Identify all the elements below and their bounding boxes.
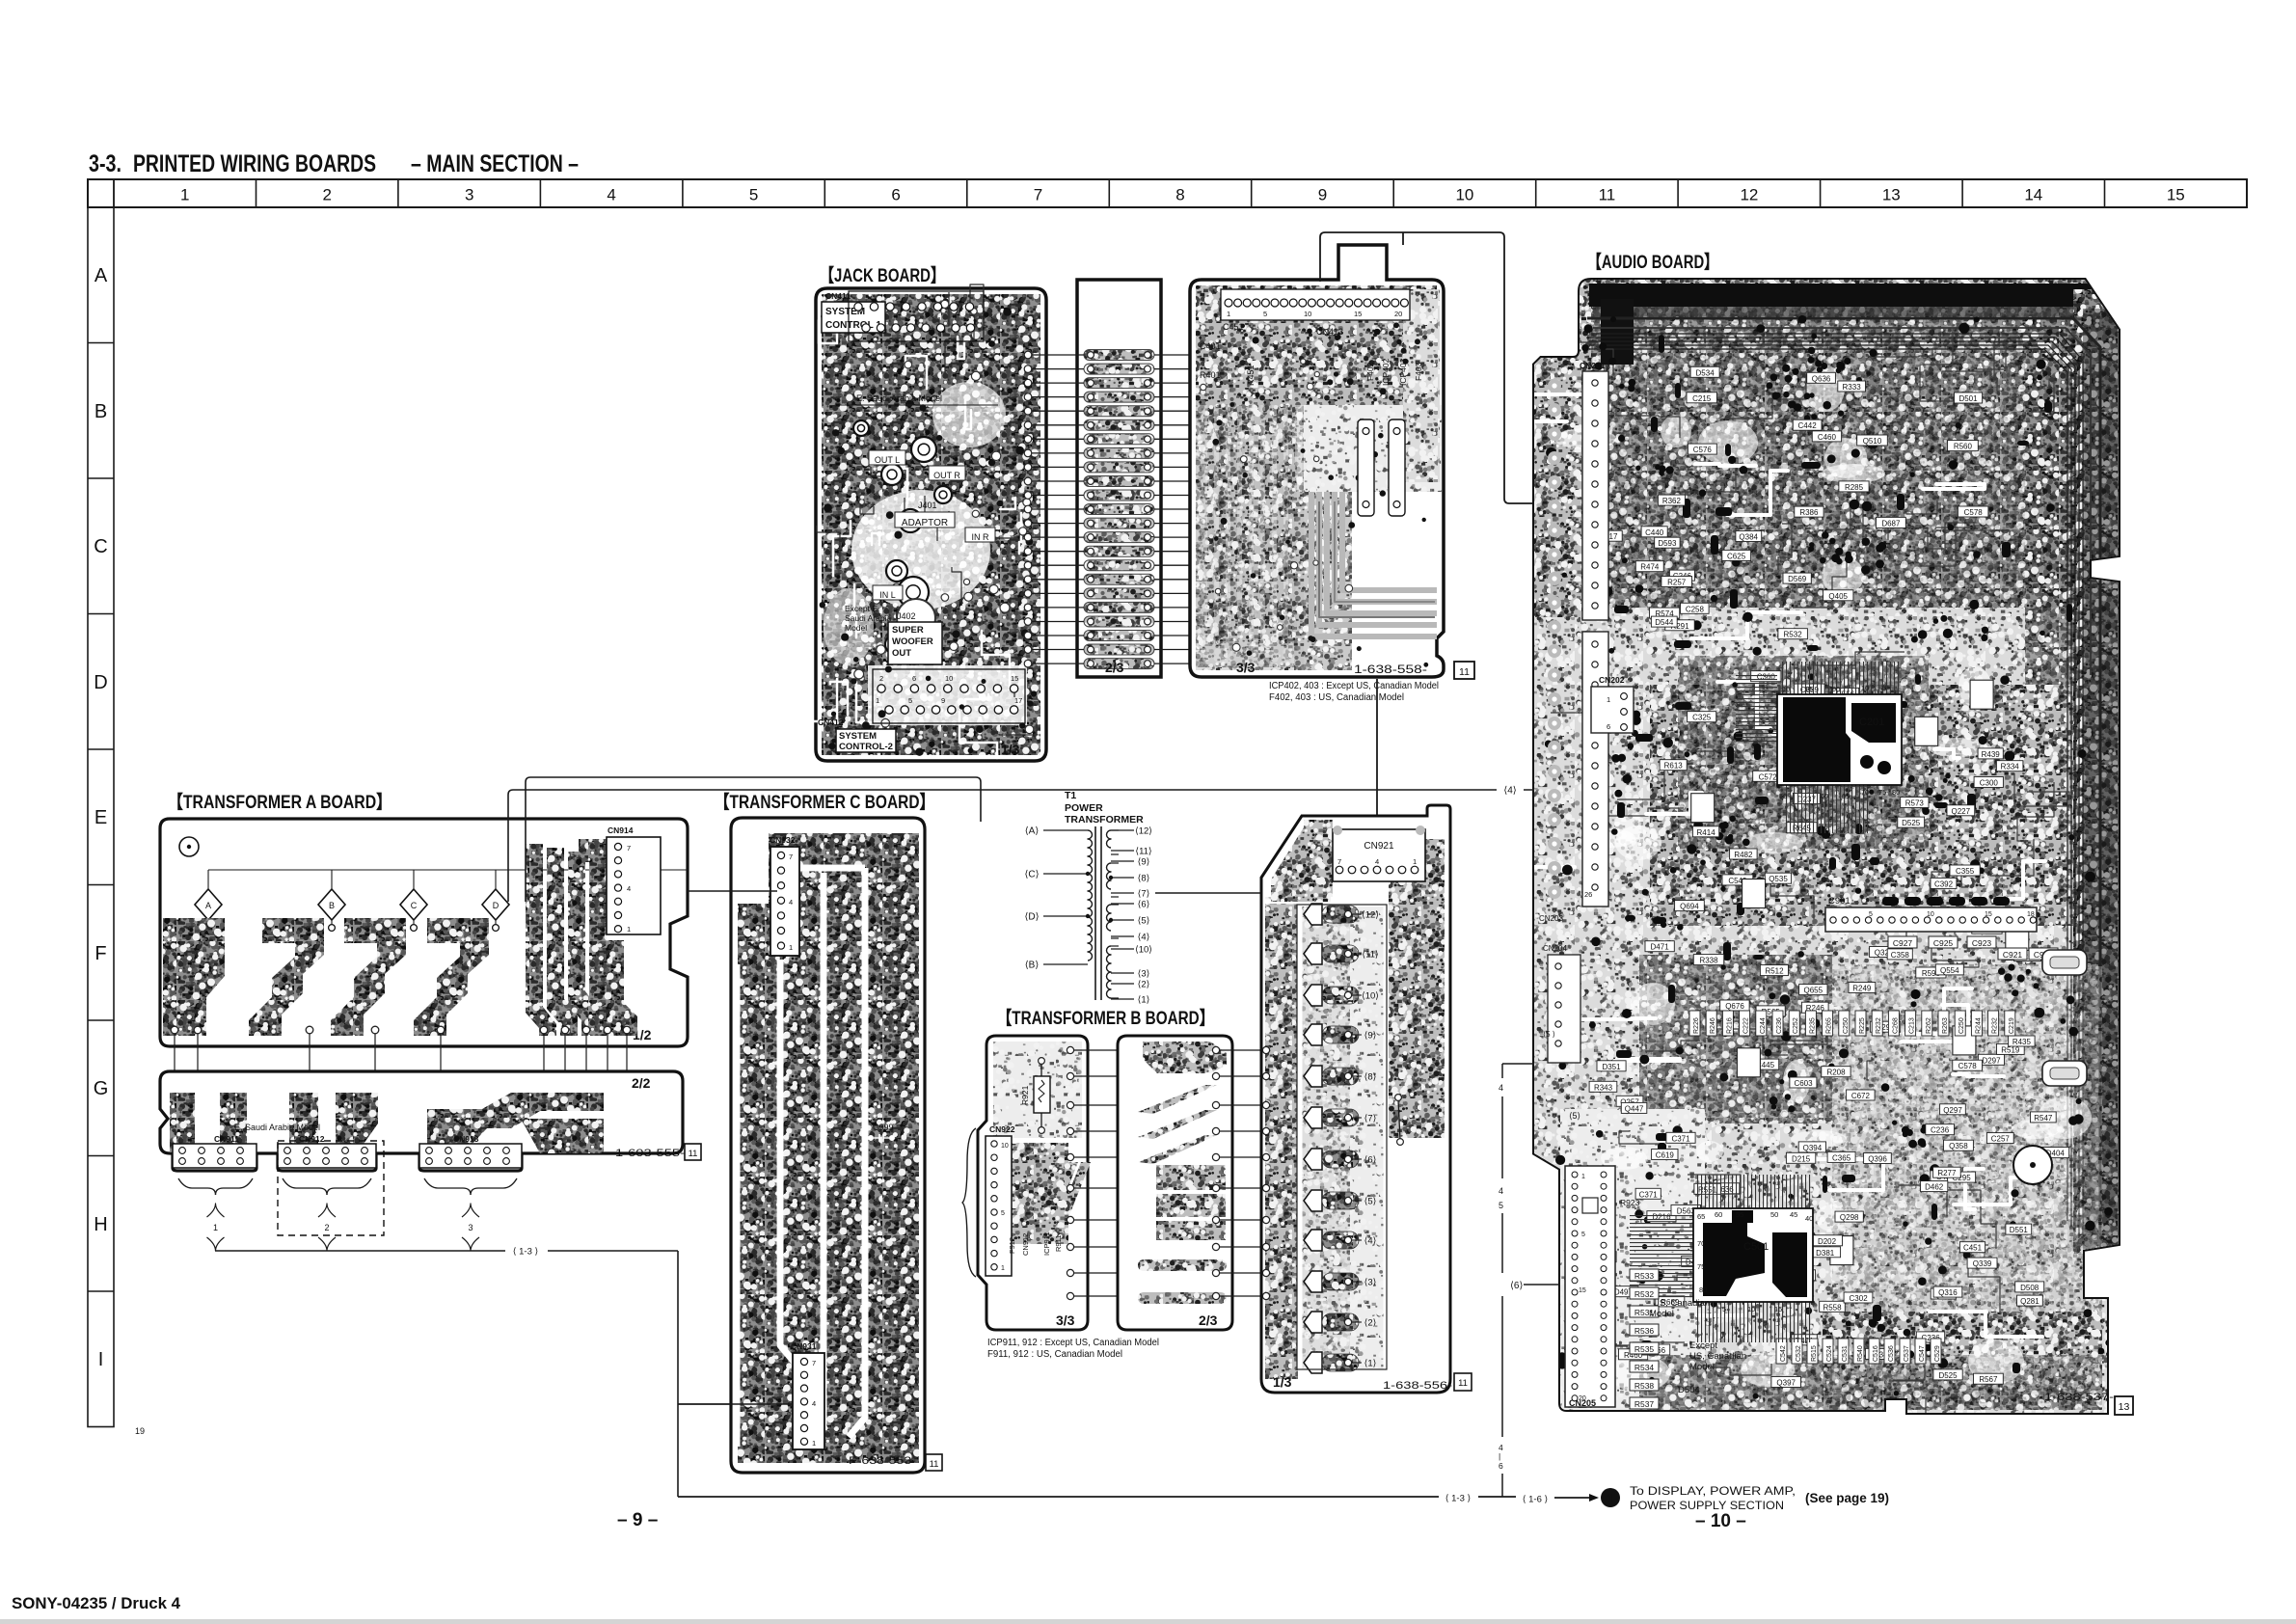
- svg-text:A: A: [205, 901, 211, 910]
- svg-text:C358: C358: [1891, 951, 1910, 960]
- svg-text:4: 4: [1499, 1186, 1503, 1196]
- svg-text:14: 14: [2024, 186, 2042, 204]
- svg-text:⟨5 ⟩: ⟨5 ⟩: [1543, 1030, 1555, 1039]
- svg-text:10: 10: [945, 674, 953, 683]
- svg-text:R535: R535: [1634, 1344, 1655, 1354]
- svg-text:3-3.: 3-3.: [89, 150, 122, 177]
- svg-text:– MAIN SECTION –: – MAIN SECTION –: [411, 150, 579, 177]
- svg-text:⟨7⟩: ⟨7⟩: [1364, 1114, 1377, 1124]
- svg-text:D525: D525: [1938, 1371, 1958, 1380]
- svg-text:CN913: CN913: [453, 1134, 479, 1144]
- svg-text:D544: D544: [1655, 618, 1674, 627]
- svg-text:R226: R226: [1693, 1017, 1700, 1034]
- svg-text:Except E.: Except E.: [845, 604, 879, 613]
- svg-text:F403: F403: [1414, 362, 1423, 381]
- svg-text:⟨9⟩: ⟨9⟩: [1138, 857, 1150, 868]
- svg-text:5: 5: [1263, 310, 1267, 318]
- svg-text:⟨ 1-3 ⟩: ⟨ 1-3 ⟩: [1445, 1493, 1472, 1503]
- svg-text:E. Saudi Arabia Model: E. Saudi Arabia Model: [856, 393, 942, 403]
- svg-text:R208: R208: [1826, 1069, 1846, 1077]
- svg-text:C524: C524: [1826, 1345, 1833, 1362]
- svg-text:⟨7⟩: ⟨7⟩: [1138, 889, 1150, 900]
- svg-text:Saudi Arabia: Saudi Arabia: [845, 613, 891, 623]
- svg-text:10: 10: [1455, 186, 1473, 204]
- svg-text:C302: C302: [1850, 1294, 1869, 1303]
- svg-text:3: 3: [468, 1223, 473, 1232]
- svg-text:⟨3⟩: ⟨3⟩: [1364, 1278, 1377, 1288]
- svg-text:6: 6: [912, 674, 916, 683]
- svg-text:D534: D534: [1696, 368, 1715, 377]
- svg-text:10: 10: [1747, 1305, 1755, 1313]
- svg-text:C201: C201: [1859, 717, 1884, 728]
- svg-text:D551: D551: [2010, 1226, 2029, 1234]
- svg-text:1/3: 1/3: [1273, 1374, 1292, 1390]
- svg-text:R235: R235: [1809, 1017, 1816, 1034]
- svg-text:6: 6: [891, 186, 900, 204]
- svg-text:B: B: [329, 901, 335, 910]
- svg-text:C213: C213: [1909, 1017, 1916, 1034]
- svg-text:2: 2: [324, 1223, 329, 1232]
- svg-text:19: 19: [135, 1426, 145, 1436]
- svg-text:Q297: Q297: [1943, 1106, 1962, 1115]
- svg-text:|: |: [1499, 1451, 1500, 1461]
- svg-text:C371: C371: [1639, 1190, 1659, 1199]
- svg-text:50: 50: [1770, 1210, 1778, 1219]
- svg-text:⟨6⟩: ⟨6⟩: [1364, 1155, 1377, 1166]
- svg-text:⟨12⟩: ⟨12⟩: [1362, 910, 1379, 921]
- svg-text:R482: R482: [1734, 851, 1753, 859]
- svg-text:1: 1: [1413, 857, 1417, 866]
- svg-text:C215: C215: [1692, 394, 1712, 403]
- svg-text:R333: R333: [1843, 383, 1862, 392]
- svg-text:Q535: Q535: [1769, 875, 1788, 883]
- svg-text:R216: R216: [1726, 1017, 1733, 1034]
- svg-text:R265: R265: [1826, 1017, 1833, 1034]
- svg-text:11: 11: [930, 1459, 939, 1470]
- svg-text:15: 15: [1985, 911, 1992, 918]
- svg-text:R262: R262: [1926, 1017, 1932, 1034]
- svg-text:US, Canadian: US, Canadian: [1689, 1351, 1746, 1362]
- svg-text:R538: R538: [1634, 1381, 1655, 1391]
- svg-text:4: 4: [1375, 857, 1379, 866]
- svg-text:⟨C⟩: ⟨C⟩: [1024, 870, 1039, 880]
- svg-text:C219: C219: [2009, 1017, 2015, 1034]
- svg-text:CN932: CN932: [770, 835, 796, 845]
- svg-text:Q554: Q554: [1940, 966, 1959, 975]
- svg-text:Q510: Q510: [1863, 437, 1882, 446]
- svg-text:D381: D381: [1816, 1249, 1835, 1258]
- svg-text:C529: C529: [1934, 1345, 1941, 1362]
- svg-text:F402: F402: [1365, 362, 1375, 381]
- svg-text:C392: C392: [1934, 880, 1954, 888]
- svg-text:R567: R567: [1979, 1375, 1998, 1384]
- svg-text:60: 60: [1715, 1210, 1722, 1219]
- svg-text:C578: C578: [1964, 508, 1984, 517]
- svg-text:C547: C547: [1919, 1345, 1926, 1362]
- svg-text:IN R: IN R: [972, 532, 990, 542]
- svg-text:6: 6: [1499, 1461, 1503, 1471]
- svg-text:2/3: 2/3: [1199, 1313, 1218, 1328]
- svg-text:17: 17: [1014, 696, 1022, 705]
- svg-text:2: 2: [879, 674, 883, 683]
- svg-text:⟨4⟩: ⟨4⟩: [1364, 1236, 1377, 1247]
- svg-text:⟨11⟩: ⟨11⟩: [1362, 950, 1379, 961]
- svg-text:Q405: Q405: [1828, 592, 1848, 601]
- svg-text:CN413: CN413: [1316, 327, 1343, 337]
- svg-text:D351: D351: [1602, 1063, 1621, 1071]
- svg-text:1: 1: [1607, 695, 1610, 704]
- svg-text:CN203: CN203: [1539, 914, 1563, 923]
- svg-text:⟨1⟩: ⟨1⟩: [1138, 995, 1150, 1006]
- svg-text:Model: Model: [1649, 1309, 1674, 1319]
- svg-text:1-603-555-: 1-603-555-: [615, 1148, 685, 1159]
- svg-text:CN931: CN931: [791, 1341, 817, 1351]
- svg-text:15: 15: [1579, 1287, 1586, 1294]
- svg-text:R474: R474: [1640, 563, 1660, 572]
- svg-text:C516: C516: [1873, 1345, 1879, 1362]
- svg-text:45: 45: [1790, 1210, 1797, 1219]
- svg-text:5: 5: [1581, 1232, 1585, 1238]
- svg-text:D297: D297: [1982, 1056, 2001, 1065]
- svg-text:I: I: [98, 1349, 104, 1370]
- svg-text:R246: R246: [1710, 1017, 1716, 1034]
- svg-text:C542: C542: [1780, 1345, 1787, 1362]
- svg-text:R414: R414: [1697, 828, 1716, 837]
- svg-text:R435: R435: [2012, 1038, 2032, 1046]
- svg-text:13: 13: [1882, 186, 1901, 204]
- svg-text:C451: C451: [1223, 322, 1244, 332]
- svg-text:11: 11: [1459, 666, 1470, 678]
- svg-text:R560: R560: [1954, 443, 1973, 451]
- svg-text:T1: T1: [1065, 790, 1076, 801]
- svg-text:11: 11: [1458, 1378, 1468, 1389]
- svg-text:R923: R923: [1620, 1198, 1640, 1207]
- svg-text:⟨6⟩: ⟨6⟩: [1138, 900, 1150, 910]
- svg-text:7: 7: [812, 1359, 816, 1367]
- svg-text:ICP911: ICP911: [1042, 1232, 1051, 1256]
- svg-text:R558: R558: [1823, 1303, 1842, 1312]
- svg-text:Q396: Q396: [1868, 1155, 1887, 1164]
- svg-text:【AUDIO BOARD】: 【AUDIO BOARD】: [1587, 251, 1718, 273]
- svg-text:Q655: Q655: [1804, 987, 1823, 995]
- svg-text:J402: J402: [897, 611, 916, 621]
- svg-text:C: C: [94, 536, 107, 557]
- svg-text:⟨8⟩: ⟨8⟩: [1138, 874, 1150, 884]
- svg-text:95: 95: [1805, 685, 1813, 693]
- svg-text:R263: R263: [1942, 1017, 1949, 1034]
- svg-text:Q676: Q676: [1725, 1002, 1744, 1011]
- svg-text:D508: D508: [2020, 1284, 2039, 1292]
- svg-text:Q394: Q394: [1803, 1144, 1823, 1152]
- svg-text:POWER: POWER: [1065, 802, 1103, 814]
- svg-text:Q227: Q227: [1952, 807, 1971, 816]
- svg-text:6: 6: [1607, 722, 1610, 731]
- svg-text:C576: C576: [1693, 446, 1713, 454]
- svg-text:C250: C250: [1958, 1017, 1965, 1034]
- svg-text:1: 1: [1607, 1492, 1614, 1505]
- svg-text:C401: C401: [1200, 341, 1221, 351]
- svg-text:R232: R232: [1992, 1017, 1999, 1034]
- svg-text:D: D: [94, 672, 107, 693]
- svg-text:13: 13: [2119, 1401, 2130, 1413]
- svg-text:OUT R: OUT R: [933, 471, 960, 480]
- svg-text:C578: C578: [1958, 1062, 1978, 1070]
- svg-text:65: 65: [1842, 792, 1850, 800]
- svg-text:5: 5: [1869, 911, 1873, 918]
- svg-text:50: 50: [1779, 792, 1787, 800]
- svg-text:⟨10⟩: ⟨10⟩: [1135, 945, 1152, 956]
- svg-text:⟨ 1-6 ⟩: ⟨ 1-6 ⟩: [1523, 1494, 1549, 1504]
- svg-text:Q384: Q384: [1739, 533, 1758, 542]
- svg-text:ADAPTOR: ADAPTOR: [902, 518, 948, 528]
- svg-text:F911, 912 : US, Canadian Mo: F911, 912 : US, Canadian Model: [987, 1349, 1122, 1360]
- svg-text:⟨D⟩: ⟨D⟩: [1024, 912, 1039, 923]
- svg-text:ICP403: ICP403: [1398, 358, 1408, 386]
- svg-text:D525: D525: [1902, 819, 1921, 827]
- svg-text:Q339: Q339: [1973, 1259, 1992, 1268]
- svg-text:E, Saudi Arabia Model: E, Saudi Arabia Model: [234, 1123, 320, 1132]
- svg-text:C365: C365: [1832, 1153, 1851, 1162]
- svg-text:J401: J401: [918, 501, 937, 510]
- svg-text:12: 12: [1740, 186, 1758, 204]
- svg-text:⟨11⟩: ⟨11⟩: [1135, 847, 1152, 857]
- svg-text:R921: R921: [1020, 1085, 1030, 1105]
- svg-text:75: 75: [1878, 788, 1886, 797]
- svg-text:F: F: [95, 943, 106, 964]
- svg-text:C440: C440: [1645, 528, 1664, 537]
- svg-text:C531: C531: [1842, 1345, 1849, 1362]
- svg-text:R232: R232: [1876, 1017, 1882, 1034]
- svg-text:G: G: [94, 1078, 109, 1099]
- svg-text:Q447: Q447: [1625, 1104, 1644, 1113]
- svg-text:ICP402: ICP402: [1381, 358, 1391, 386]
- svg-text:Q636: Q636: [1812, 374, 1831, 383]
- svg-text:Model: Model: [845, 623, 867, 633]
- svg-text:C625: C625: [1727, 552, 1746, 560]
- svg-text:CN411: CN411: [825, 291, 851, 301]
- svg-text:C925: C925: [1933, 938, 1954, 948]
- svg-text:90: 90: [1832, 685, 1840, 693]
- svg-text:⟨5⟩: ⟨5⟩: [1138, 916, 1150, 927]
- svg-text:F-638-553-: F-638-553-: [849, 1455, 916, 1467]
- svg-text:C442: C442: [1798, 421, 1818, 430]
- svg-text:C: C: [411, 901, 418, 910]
- svg-text:1: 1: [876, 696, 879, 705]
- svg-text:5: 5: [1001, 1210, 1005, 1217]
- svg-text:E: E: [95, 807, 107, 828]
- svg-text:TRANSFORMER: TRANSFORMER: [1065, 814, 1144, 826]
- svg-text:Q358: Q358: [1949, 1142, 1968, 1150]
- svg-text:1-638-537-: 1-638-537-: [2044, 1392, 2114, 1403]
- svg-text:C572: C572: [1759, 772, 1778, 781]
- svg-text:4: 4: [607, 186, 615, 204]
- svg-text:C532: C532: [1796, 1345, 1802, 1362]
- svg-text:4: 4: [1499, 1083, 1503, 1093]
- svg-text:⟨8⟩: ⟨8⟩: [1364, 1072, 1377, 1083]
- svg-text:⟨ 1-3 ⟩: ⟨ 1-3 ⟩: [513, 1246, 539, 1257]
- svg-text:CN201: CN201: [1580, 361, 1606, 370]
- svg-text:WOOFER: WOOFER: [892, 636, 933, 647]
- svg-text:C999: C999: [873, 1123, 894, 1132]
- svg-text:CN202: CN202: [1599, 675, 1625, 685]
- svg-text:R257: R257: [1667, 579, 1687, 587]
- svg-text:⟨6⟩: ⟨6⟩: [1510, 1281, 1523, 1291]
- svg-text:(See page 19): (See page 19): [1805, 1491, 1889, 1505]
- svg-text:80: 80: [1699, 1286, 1707, 1294]
- svg-text:US, Canadian: US, Canadian: [1653, 1298, 1710, 1309]
- svg-text:R401: R401: [1200, 370, 1221, 380]
- svg-text:R547: R547: [2034, 1114, 2053, 1123]
- svg-text:C252: C252: [1793, 1017, 1799, 1034]
- svg-text:F912: F912: [1008, 1237, 1016, 1254]
- svg-text:⟨2⟩: ⟨2⟩: [1138, 980, 1150, 990]
- svg-text:Q694: Q694: [1680, 903, 1699, 911]
- svg-text:D471: D471: [1651, 943, 1670, 952]
- svg-text:1/3: 1/3: [1001, 742, 1020, 757]
- svg-text:CN911: CN911: [214, 1134, 239, 1144]
- svg-text:C451: C451: [1963, 1244, 1983, 1253]
- svg-text:R532: R532: [1784, 631, 1803, 639]
- svg-text:ICP911, 912 : Except US, Ca: ICP911, 912 : Except US, Canadian Model: [987, 1338, 1159, 1348]
- svg-text:R285: R285: [1845, 483, 1864, 492]
- svg-text:55: 55: [1736, 1210, 1743, 1219]
- svg-text:C923: C923: [1972, 938, 1992, 948]
- svg-text:C901: C901: [1828, 896, 1850, 907]
- svg-text:5: 5: [1499, 1201, 1503, 1210]
- svg-text:R533: R533: [1634, 1271, 1655, 1281]
- svg-text:Q397: Q397: [1776, 1379, 1796, 1388]
- svg-text:1: 1: [213, 1223, 218, 1232]
- svg-text:D462: D462: [1925, 1183, 1944, 1192]
- svg-text:80: 80: [1892, 788, 1900, 797]
- svg-text:70: 70: [1861, 788, 1869, 797]
- svg-text:SUPER: SUPER: [892, 625, 924, 636]
- svg-text:R386: R386: [1799, 508, 1819, 517]
- svg-text:1: 1: [1581, 1174, 1585, 1180]
- svg-text:CN914: CN914: [608, 826, 634, 835]
- svg-text:R439: R439: [1982, 750, 2001, 759]
- svg-text:10: 10: [1001, 1143, 1009, 1150]
- svg-text:10: 10: [1927, 911, 1934, 918]
- svg-text:10: 10: [1782, 685, 1790, 693]
- svg-text:R451: R451: [1246, 365, 1256, 386]
- svg-text:C501: C501: [1743, 1241, 1769, 1253]
- svg-text:C921: C921: [2003, 950, 2023, 960]
- svg-text:1: 1: [627, 925, 631, 934]
- svg-text:7: 7: [1034, 186, 1042, 204]
- svg-text:60: 60: [1821, 792, 1828, 800]
- svg-text:Except: Except: [1689, 1340, 1717, 1351]
- svg-text:⟨4⟩: ⟨4⟩: [1503, 786, 1516, 797]
- svg-text:B: B: [95, 401, 107, 422]
- svg-text:R519: R519: [2001, 1045, 2020, 1054]
- svg-text:CONTROL-2: CONTROL-2: [839, 742, 893, 752]
- svg-text:⟨12⟩: ⟨12⟩: [1135, 826, 1152, 837]
- svg-text:【TRANSFORMER C BOARD】: 【TRANSFORMER C BOARD】: [715, 791, 934, 813]
- svg-text:C236: C236: [1931, 1126, 1950, 1135]
- svg-text:R536: R536: [1634, 1326, 1655, 1336]
- svg-text:C250: C250: [1843, 1017, 1850, 1034]
- svg-text:7: 7: [1337, 857, 1341, 866]
- svg-text:C325: C325: [1692, 714, 1712, 722]
- svg-text:CN912: CN912: [1021, 1233, 1030, 1256]
- svg-text:C236: C236: [1776, 1017, 1783, 1034]
- svg-text:10: 10: [1861, 684, 1869, 692]
- svg-text:C257: C257: [1991, 1135, 2011, 1144]
- svg-text:CN204: CN204: [1543, 944, 1567, 953]
- svg-text:1: 1: [789, 943, 793, 952]
- svg-text:SYSTEM: SYSTEM: [839, 731, 877, 742]
- svg-text:2/2: 2/2: [632, 1075, 651, 1091]
- svg-text:R343: R343: [1594, 1083, 1613, 1092]
- svg-text:18: 18: [2027, 911, 2035, 918]
- svg-text:OUT: OUT: [892, 648, 911, 659]
- svg-text:D687: D687: [1881, 519, 1901, 528]
- svg-text:【TRANSFORMER A BOARD】: 【TRANSFORMER A BOARD】: [168, 791, 392, 813]
- svg-text:26: 26: [1584, 890, 1592, 899]
- svg-text:3: 3: [465, 186, 473, 204]
- svg-text:OUT L: OUT L: [875, 455, 900, 465]
- svg-text:C537: C537: [1904, 1345, 1910, 1362]
- svg-text:⟨2⟩: ⟨2⟩: [1364, 1318, 1377, 1329]
- svg-text:⟨1⟩: ⟨1⟩: [1364, 1359, 1377, 1369]
- svg-text:R613: R613: [1664, 762, 1684, 771]
- svg-text:R537: R537: [1634, 1399, 1655, 1409]
- svg-text:1: 1: [1227, 310, 1230, 318]
- svg-text:⟨A⟩: ⟨A⟩: [1025, 826, 1040, 837]
- svg-text:⟨3⟩: ⟨3⟩: [1138, 969, 1150, 980]
- svg-text:9: 9: [1318, 186, 1327, 204]
- svg-text:C619: C619: [1656, 1151, 1675, 1160]
- svg-text:40: 40: [1805, 1214, 1813, 1223]
- svg-text:H: H: [94, 1214, 107, 1235]
- svg-text:15: 15: [1774, 1305, 1782, 1313]
- svg-text:R225: R225: [1859, 1017, 1866, 1034]
- svg-text:R573: R573: [1905, 799, 1925, 808]
- svg-text:4: 4: [812, 1399, 816, 1408]
- svg-text:CN412: CN412: [818, 717, 844, 727]
- svg-text:R249: R249: [1852, 985, 1872, 993]
- svg-text:1: 1: [1001, 1265, 1005, 1272]
- svg-text:C300: C300: [1980, 779, 1999, 788]
- svg-text:D215: D215: [1792, 1154, 1811, 1163]
- svg-text:C536: C536: [1888, 1345, 1895, 1362]
- svg-text:1: 1: [180, 186, 189, 204]
- svg-text:To DISPLAY, POWER AMP,: To DISPLAY, POWER AMP,: [1630, 1486, 1796, 1498]
- svg-text:A: A: [95, 265, 108, 286]
- svg-text:1-638-558-: 1-638-558-: [1354, 663, 1427, 676]
- svg-text:65: 65: [1697, 1212, 1705, 1221]
- svg-text:– 9 –: – 9 –: [617, 1510, 658, 1530]
- svg-text:11: 11: [689, 1149, 698, 1159]
- svg-text:5: 5: [908, 696, 912, 705]
- svg-text:Model: Model: [1689, 1362, 1715, 1372]
- svg-text:R244: R244: [1975, 1017, 1982, 1034]
- svg-text:20: 20: [1394, 310, 1402, 318]
- svg-text:⟨5⟩: ⟨5⟩: [1364, 1197, 1377, 1207]
- svg-text:R362: R362: [1662, 497, 1682, 505]
- svg-text:3/3: 3/3: [1236, 660, 1256, 675]
- svg-text:R334: R334: [2001, 763, 2020, 771]
- svg-text:D501: D501: [1958, 394, 1978, 403]
- svg-text:⟨B⟩: ⟨B⟩: [1025, 961, 1040, 971]
- svg-text:Q316: Q316: [1938, 1288, 1958, 1297]
- svg-text:8: 8: [1175, 186, 1184, 204]
- svg-text:CN921: CN921: [1364, 841, 1394, 852]
- svg-text:⟨5⟩: ⟨5⟩: [1569, 1111, 1580, 1121]
- svg-text:CN912: CN912: [299, 1134, 325, 1144]
- svg-text:20: 20: [1579, 1395, 1586, 1402]
